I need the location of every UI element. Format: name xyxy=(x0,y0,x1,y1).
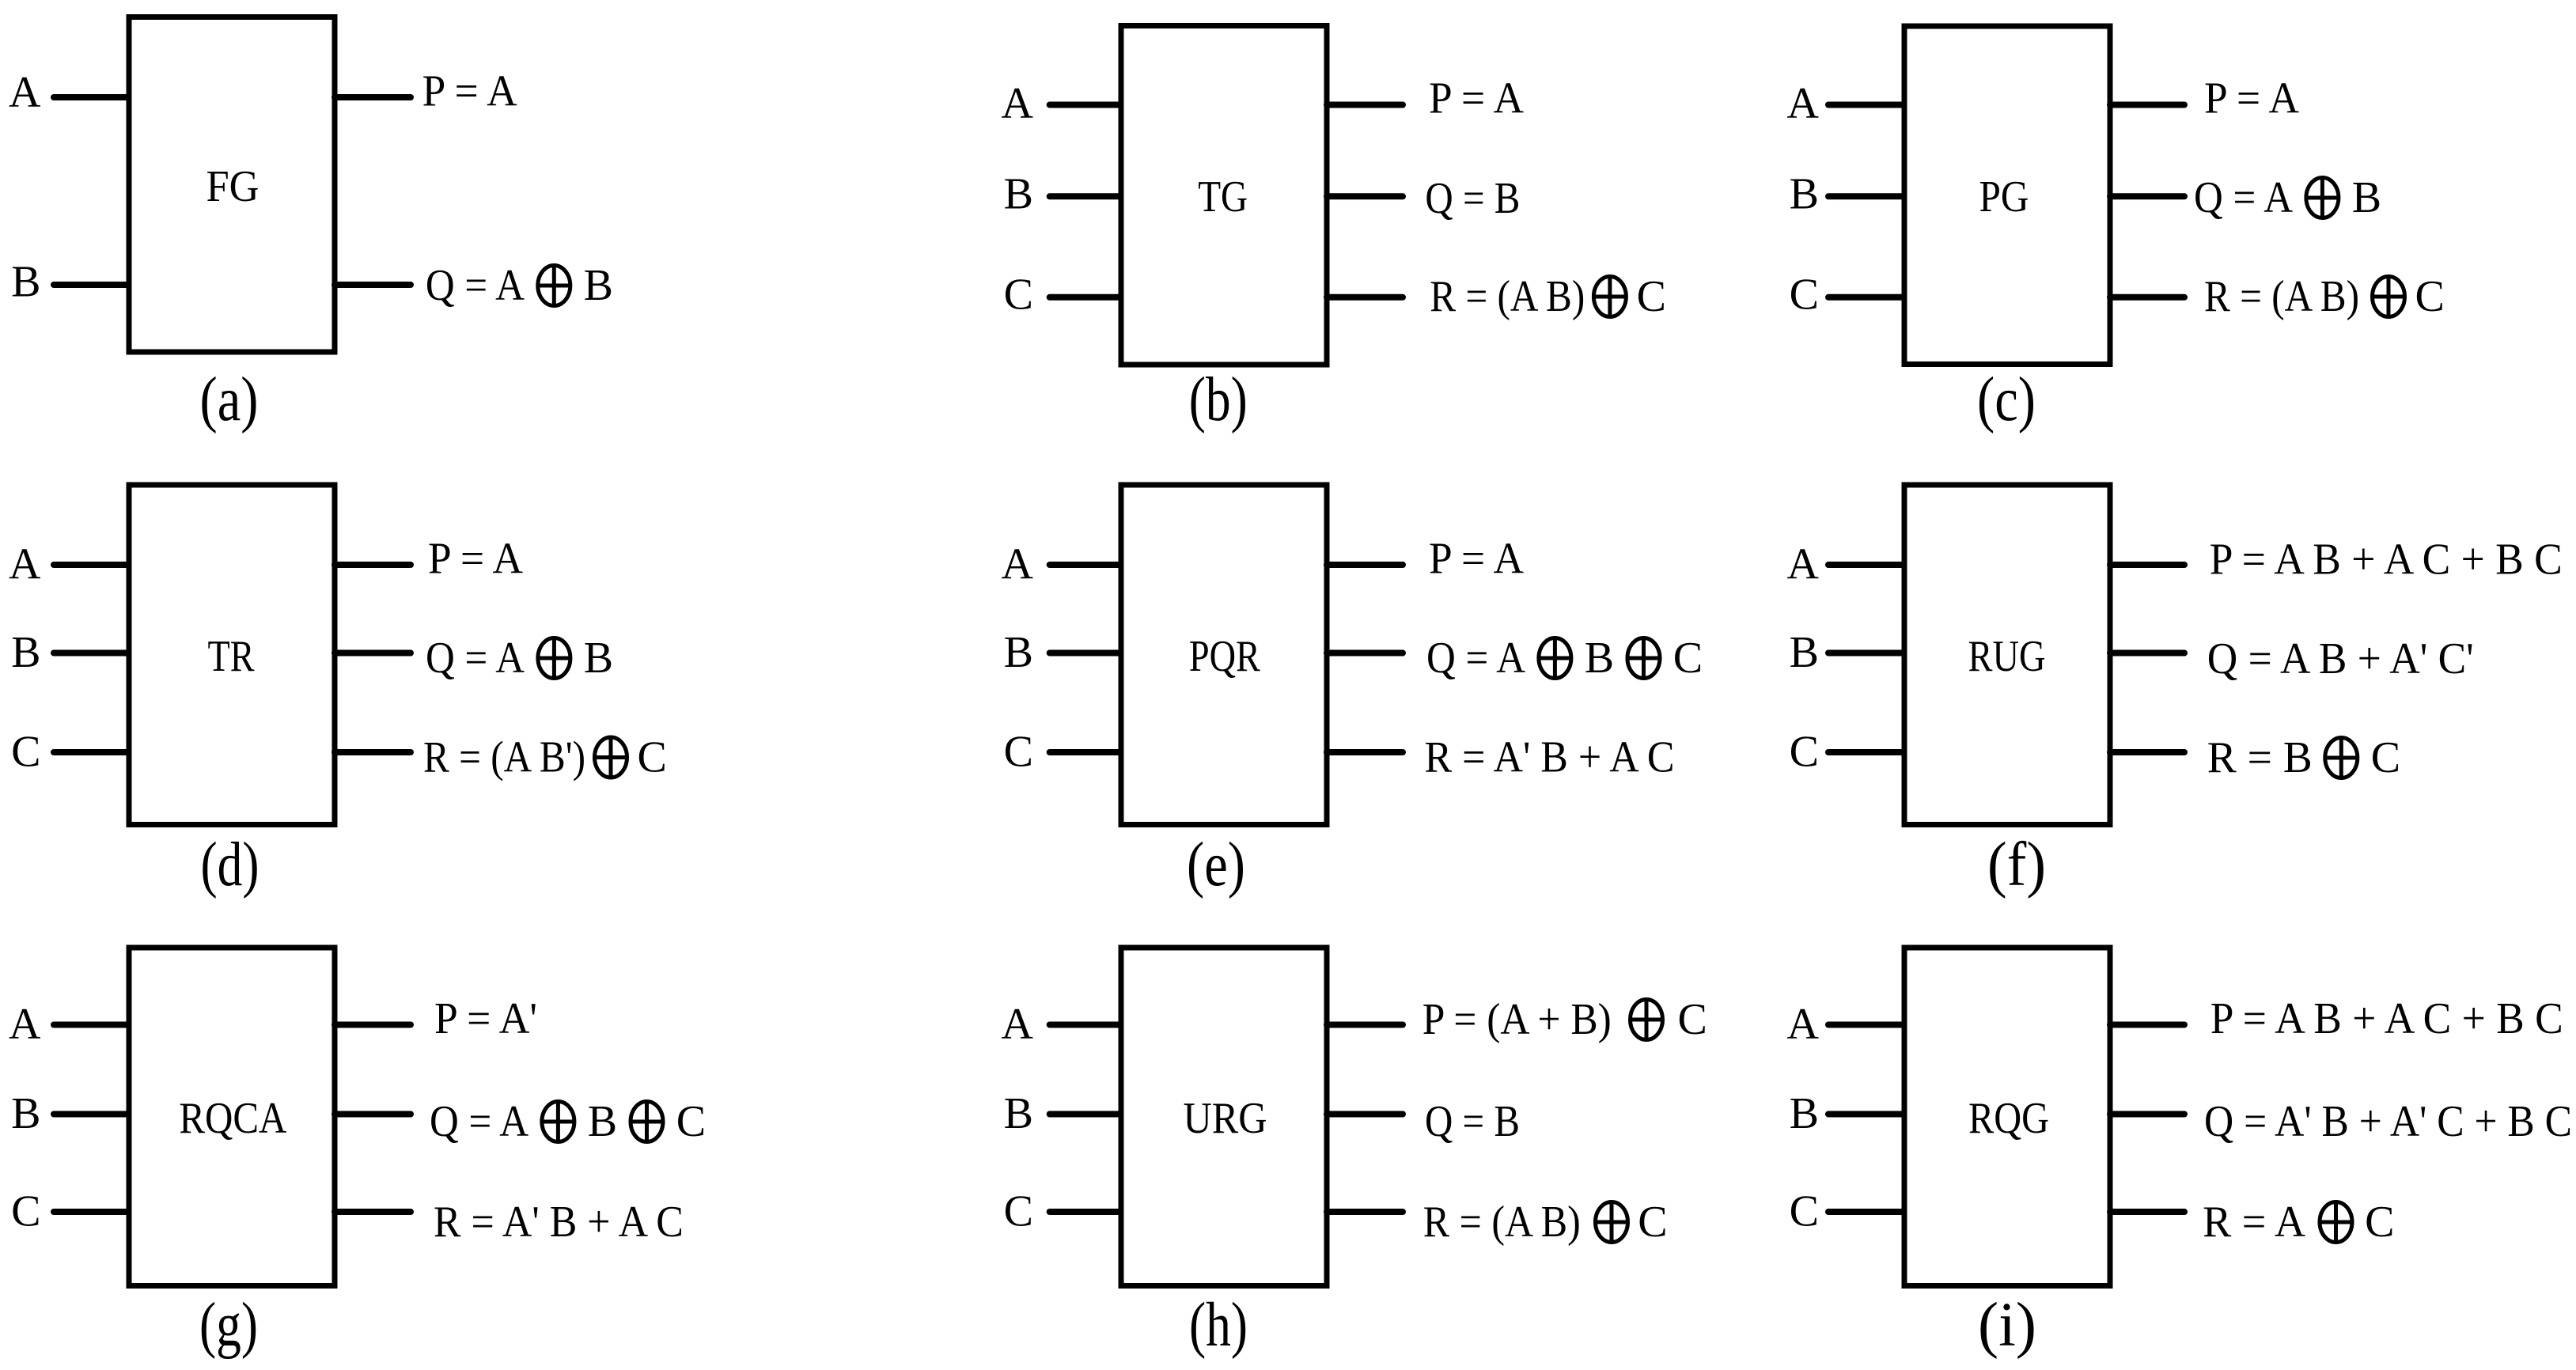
gate RQG (i) xyxy=(1904,948,2110,1286)
svg-text:C: C xyxy=(638,733,667,782)
svg-text:Q = A B + A' C': Q = A B + A' C' xyxy=(2207,634,2474,683)
svg-text:Q = A: Q = A xyxy=(426,261,525,310)
wire input B of RQCA xyxy=(54,1111,129,1118)
svg-text:C: C xyxy=(1790,271,1819,320)
wire output R of RUG xyxy=(2110,749,2184,755)
svg-text:RUG: RUG xyxy=(1968,632,2046,681)
svg-text:P = A: P = A xyxy=(2204,74,2300,123)
wire input A of RQCA xyxy=(54,1022,129,1028)
svg-text:C: C xyxy=(676,1097,706,1146)
svg-text:A: A xyxy=(1002,79,1034,128)
svg-text:(d): (d) xyxy=(201,831,259,899)
wire input B of PQR xyxy=(1050,650,1121,657)
svg-text:R = (A B): R = (A B) xyxy=(1430,272,1585,321)
svg-text:B: B xyxy=(588,1097,617,1146)
svg-text:B: B xyxy=(11,258,40,307)
wire output P of RQCA xyxy=(335,1022,411,1028)
svg-text:R = (A B): R = (A B) xyxy=(2204,272,2359,321)
svg-text:C: C xyxy=(2415,272,2445,321)
wire input B of RQG xyxy=(1828,1111,1904,1118)
svg-text:P = A B + A C + B C: P = A B + A C + B C xyxy=(2210,536,2563,585)
svg-text:Q = A: Q = A xyxy=(1426,634,1526,683)
wire input C of PQR xyxy=(1050,749,1121,755)
wire output Q of RUG xyxy=(2110,650,2184,657)
svg-text:Q = A' B + A' C + B C: Q = A' B + A' C + B C xyxy=(2204,1097,2572,1146)
wire input B of TG xyxy=(1050,193,1121,199)
svg-text:C: C xyxy=(1637,272,1666,321)
wire input A of TR xyxy=(54,562,129,568)
xor symbol in TR.Q xyxy=(538,638,570,679)
svg-text:URG: URG xyxy=(1184,1094,1267,1143)
svg-text:Q = A: Q = A xyxy=(426,634,525,683)
svg-text:(h): (h) xyxy=(1189,1291,1248,1360)
svg-text:B: B xyxy=(584,261,613,310)
wire output Q of TR xyxy=(335,650,411,657)
xor symbol in PG.R xyxy=(2373,277,2405,317)
wire input B of URG xyxy=(1050,1111,1121,1118)
svg-text:P = A: P = A xyxy=(428,535,524,584)
gate RUG (f) xyxy=(1904,485,2110,825)
wire input C of RQCA xyxy=(54,1209,129,1215)
wire input C of RUG xyxy=(1828,749,1904,755)
svg-text:TG: TG xyxy=(1198,172,1248,221)
wire output R of URG xyxy=(1327,1209,1403,1215)
wire input A of PG xyxy=(1828,102,1904,108)
svg-text:Q = B: Q = B xyxy=(1425,1097,1520,1146)
gate PG (c) xyxy=(1904,26,2110,365)
xor symbol in PQR.Q xyxy=(1627,638,1660,679)
svg-text:A: A xyxy=(1002,540,1034,589)
svg-text:A: A xyxy=(1787,540,1820,589)
xor symbol in FG.Q xyxy=(538,266,570,306)
xor symbol in RUG.R xyxy=(2325,738,2358,778)
wire output R of PG xyxy=(2110,294,2184,301)
svg-text:C: C xyxy=(1790,728,1819,777)
svg-text:C: C xyxy=(1638,1198,1667,1247)
svg-text:A: A xyxy=(1787,79,1820,128)
xor symbol in RQG.R xyxy=(2320,1202,2352,1243)
wire output R of RQG xyxy=(2110,1209,2184,1215)
svg-text:PG: PG xyxy=(1979,172,2029,221)
xor symbol in URG.R xyxy=(1596,1202,1628,1243)
svg-text:B: B xyxy=(1790,1089,1819,1138)
svg-text:(b): (b) xyxy=(1189,365,1248,434)
svg-text:B: B xyxy=(1790,628,1819,677)
gate TR (d) xyxy=(129,485,335,825)
svg-text:C: C xyxy=(1673,634,1703,683)
svg-text:A: A xyxy=(9,540,41,589)
svg-text:B: B xyxy=(1004,1089,1033,1138)
xor symbol in PQR.Q xyxy=(1539,638,1571,679)
svg-text:B: B xyxy=(11,1089,40,1138)
xor symbol in TG.R xyxy=(1593,277,1626,317)
svg-text:Q = A: Q = A xyxy=(2194,173,2294,222)
xor symbol in RQCA.Q xyxy=(542,1102,574,1142)
wire output P of FG xyxy=(335,94,411,100)
wire output Q of RQG xyxy=(2110,1111,2184,1118)
svg-text:R = A' B + A C: R = A' B + A C xyxy=(434,1198,684,1247)
svg-text:(e): (e) xyxy=(1187,831,1245,899)
svg-text:R = B: R = B xyxy=(2207,733,2313,782)
svg-text:R = (A B'): R = (A B') xyxy=(423,733,585,782)
svg-text:RQG: RQG xyxy=(1968,1094,2049,1143)
xor symbol in TR.R xyxy=(595,737,627,778)
svg-text:P = A: P = A xyxy=(422,67,518,116)
wire output Q of URG xyxy=(1327,1111,1403,1118)
wire input C of TG xyxy=(1050,294,1121,301)
svg-text:P = A: P = A xyxy=(1429,535,1525,584)
wire output P of PG xyxy=(2110,102,2184,108)
svg-text:R = A' B + A C: R = A' B + A C xyxy=(1425,733,1675,782)
svg-text:C: C xyxy=(2365,1198,2394,1247)
wire input B of PG xyxy=(1828,193,1904,199)
svg-text:B: B xyxy=(11,628,40,677)
wire input C of RQG xyxy=(1828,1209,1904,1215)
wire input B of TR xyxy=(54,650,129,657)
gate TG (b) xyxy=(1121,26,1327,365)
xor symbol in PG.Q xyxy=(2306,178,2339,218)
svg-text:C: C xyxy=(1004,728,1033,777)
wire input C of TR xyxy=(54,749,129,755)
wire output R of TR xyxy=(335,749,411,755)
wire input A of URG xyxy=(1050,1022,1121,1028)
svg-text:C: C xyxy=(11,728,40,777)
wire input A of RQG xyxy=(1828,1022,1904,1028)
gate PQR (e) xyxy=(1121,485,1327,825)
svg-text:P = (A + B): P = (A + B) xyxy=(1422,995,1612,1044)
wire output R of RQCA xyxy=(335,1209,411,1215)
svg-text:B: B xyxy=(1790,169,1819,218)
svg-text:A: A xyxy=(9,68,41,117)
svg-text:RQCA: RQCA xyxy=(179,1094,286,1143)
wire output P of TG xyxy=(1327,102,1403,108)
wire output P of RQG xyxy=(2110,1022,2184,1028)
svg-text:R = A: R = A xyxy=(2203,1198,2306,1247)
svg-text:P = A B + A C + B C: P = A B + A C + B C xyxy=(2210,994,2563,1043)
wire output R of PQR xyxy=(1327,749,1403,755)
svg-text:C: C xyxy=(1790,1187,1819,1236)
svg-text:C: C xyxy=(11,1187,40,1236)
svg-text:Q = A: Q = A xyxy=(430,1097,529,1146)
gate FG (a) xyxy=(129,17,335,353)
svg-text:(c): (c) xyxy=(1977,365,2036,434)
svg-text:(a): (a) xyxy=(200,365,259,434)
svg-text:B: B xyxy=(584,634,613,683)
svg-text:B: B xyxy=(1004,169,1033,218)
wire input A of TG xyxy=(1050,102,1121,108)
gate RQCA (g) xyxy=(129,948,335,1286)
wire output P of TR xyxy=(335,562,411,568)
wire output P of URG xyxy=(1327,1022,1403,1028)
svg-text:B: B xyxy=(1004,628,1033,677)
svg-text:(g): (g) xyxy=(199,1291,258,1360)
svg-text:C: C xyxy=(1678,995,1707,1044)
svg-text:FG: FG xyxy=(206,162,259,211)
wire output Q of TG xyxy=(1327,193,1403,199)
wire input A of FG xyxy=(54,94,129,100)
svg-text:A: A xyxy=(1787,1000,1820,1049)
wire output Q of PG xyxy=(2110,193,2184,199)
wire input B of RUG xyxy=(1828,650,1904,657)
svg-text:(i): (i) xyxy=(1978,1291,2036,1360)
wire input C of URG xyxy=(1050,1209,1121,1215)
wire output Q of RQCA xyxy=(335,1111,411,1118)
svg-text:PQR: PQR xyxy=(1189,632,1261,681)
svg-text:A: A xyxy=(1002,1000,1034,1049)
wire output P of PQR xyxy=(1327,562,1403,568)
wire output R of TG xyxy=(1327,294,1403,301)
svg-text:B: B xyxy=(2352,173,2381,222)
gate URG (h) xyxy=(1121,948,1327,1286)
svg-text:C: C xyxy=(1004,1187,1033,1236)
svg-text:(f): (f) xyxy=(1987,831,2046,899)
svg-text:A: A xyxy=(9,1000,41,1049)
svg-text:C: C xyxy=(1004,271,1033,320)
svg-text:B: B xyxy=(1585,634,1614,683)
wire input A of PQR xyxy=(1050,562,1121,568)
svg-text:R = (A B): R = (A B) xyxy=(1423,1198,1581,1247)
wire input A of RUG xyxy=(1828,562,1904,568)
wire input B of FG xyxy=(54,282,129,288)
svg-text:C: C xyxy=(2371,733,2400,782)
svg-text:P = A: P = A xyxy=(1429,74,1525,123)
wire output Q of FG xyxy=(335,282,411,288)
wire input C of PG xyxy=(1828,294,1904,301)
wire output Q of PQR xyxy=(1327,650,1403,657)
wire output P of RUG xyxy=(2110,562,2184,568)
xor symbol in RQCA.Q xyxy=(631,1102,663,1142)
xor symbol in URG.P xyxy=(1631,1000,1663,1040)
svg-text:TR: TR xyxy=(208,632,256,681)
svg-text:P = A': P = A' xyxy=(434,994,537,1043)
svg-text:Q = B: Q = B xyxy=(1425,174,1520,223)
